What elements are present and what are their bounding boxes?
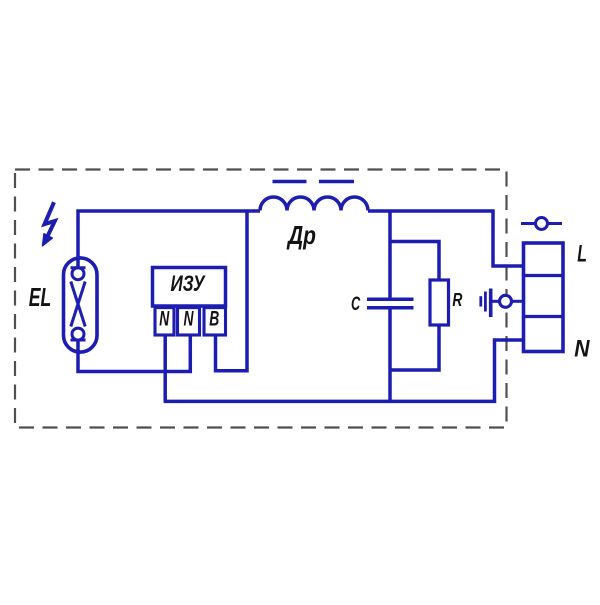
svg-text:EL: EL — [29, 282, 52, 312]
svg-text:N: N — [574, 336, 590, 363]
svg-text:N: N — [159, 308, 170, 331]
svg-text:L: L — [577, 240, 587, 267]
svg-text:B: B — [209, 308, 219, 331]
svg-text:R: R — [452, 290, 462, 310]
svg-text:ИЗУ: ИЗУ — [171, 271, 207, 296]
svg-text:N: N — [184, 308, 195, 331]
svg-text:Др: Др — [286, 220, 316, 250]
svg-text:C: C — [351, 293, 361, 315]
